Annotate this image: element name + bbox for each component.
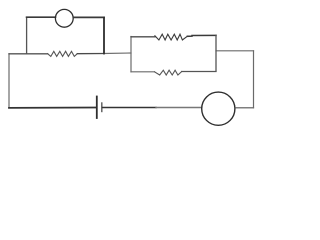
wire loop1 right vertical [103,17,105,53]
wire box left vertical [130,37,132,72]
wire box top right [187,34,216,37]
wire top right to box [216,50,254,52]
wire loop1 left vertical [26,17,28,54]
wire box top left [131,36,155,38]
wire right rail [253,51,255,108]
source M1 circle [202,92,235,125]
wire loop1 top right [73,16,104,18]
ammeter A1 circle [55,9,73,27]
wire bottom middle light [156,107,202,109]
resistor R3 [155,70,182,75]
resistor R2 [155,34,187,40]
wire box bottom left [131,71,155,73]
wire main row to box [104,52,131,55]
wire bottom right [235,107,254,109]
wire bottom middle [103,107,157,109]
wire loop1 top left [27,16,56,18]
battery V1 short plate [101,103,103,112]
wire bottom left [9,107,96,109]
wire main row left [9,53,48,55]
wire main row right [77,53,104,55]
resistor R1 [48,51,78,56]
wire left rail [8,54,10,108]
wire box bottom right [182,71,216,73]
wire box right vertical [215,35,217,71]
battery V1 long plate [96,97,98,119]
